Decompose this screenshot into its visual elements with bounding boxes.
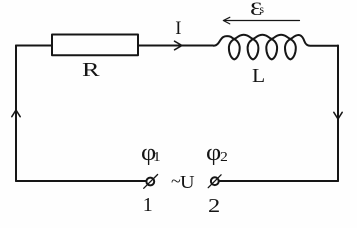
wire bottom right	[219, 180, 338, 182]
terminal 2	[211, 177, 219, 185]
label 2	[208, 195, 220, 218]
inductor L coil	[214, 35, 339, 60]
label phi2	[206, 140, 228, 167]
label R	[82, 60, 100, 82]
wire left vertical	[15, 46, 17, 182]
label epsilon s	[250, 0, 262, 21]
label s subscript	[259, 2, 264, 17]
wire resistor to inductor	[138, 45, 213, 47]
label ~U	[171, 171, 193, 192]
wire bottom left	[16, 180, 146, 182]
wire right vertical	[337, 46, 339, 182]
terminal 1	[146, 178, 154, 186]
label 1	[143, 194, 153, 217]
arrowhead down on right wire	[334, 112, 342, 119]
label phi1	[141, 140, 161, 167]
resistor R1	[52, 35, 138, 56]
label L	[252, 65, 265, 88]
arrow epsilon-s (self-induction emf) pointing left	[224, 20, 300, 22]
wire top-left horizontal	[16, 45, 52, 47]
arrowhead up on left wire	[12, 110, 20, 117]
arrowhead current I	[175, 41, 183, 50]
label I	[175, 19, 181, 40]
